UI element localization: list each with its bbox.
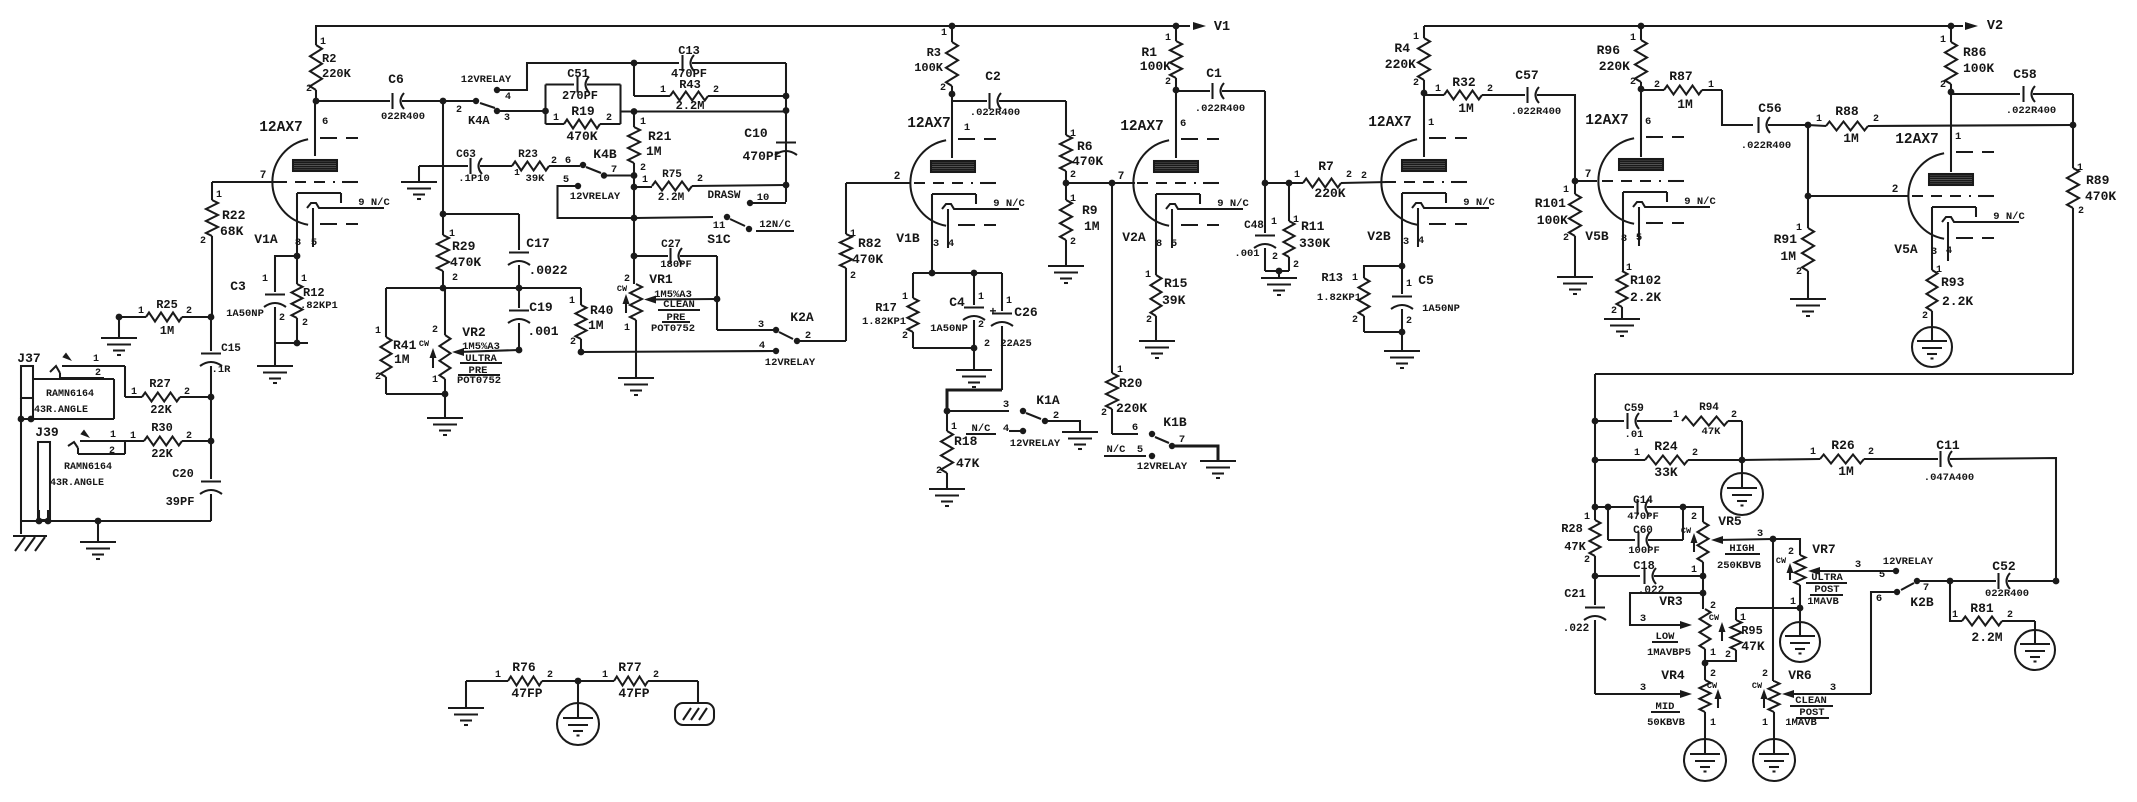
- wire cathode loop: [913, 272, 1002, 274]
- svg-text:3: 3: [1830, 682, 1836, 694]
- node K4B pin7 junction: [631, 172, 638, 179]
- svg-text:1: 1: [130, 431, 136, 442]
- svg-text:C11: C11: [1936, 438, 1960, 453]
- svg-text:1MAVB: 1MAVB: [1785, 717, 1817, 729]
- relay K1B: [1112, 433, 1138, 435]
- node R19 input: [542, 108, 549, 115]
- svg-text:1M: 1M: [394, 352, 410, 367]
- svg-text:5: 5: [1636, 232, 1642, 244]
- svg-text:9 N/C: 9 N/C: [1684, 196, 1716, 208]
- svg-text:.022R400: .022R400: [1195, 103, 1245, 115]
- wire feedback box top: [1595, 373, 2073, 375]
- svg-text:2: 2: [1293, 260, 1299, 271]
- switch S1C pin10: [747, 200, 753, 206]
- svg-text:33K: 33K: [1654, 465, 1678, 480]
- switch S1C arm to pin12: [730, 219, 745, 226]
- svg-text:22A25: 22A25: [1000, 338, 1032, 350]
- svg-text:39K: 39K: [526, 173, 546, 185]
- svg-text:6: 6: [565, 155, 571, 167]
- resistor R7: [1303, 179, 1341, 188]
- wire C26 to K1A node: [947, 390, 1002, 411]
- wire V1B plate lead: [951, 94, 953, 158]
- svg-text:4: 4: [759, 340, 765, 352]
- wire R94 down: [1741, 421, 1743, 460]
- svg-text:2: 2: [2007, 610, 2013, 621]
- svg-text:2: 2: [1868, 447, 1874, 458]
- svg-text:6: 6: [1132, 422, 1138, 434]
- svg-text:7: 7: [1923, 582, 1929, 594]
- svg-text:2: 2: [1762, 669, 1768, 680]
- resistor R82 grid series: [845, 183, 847, 234]
- svg-text:1: 1: [110, 430, 116, 441]
- node R24 R94 join: [1739, 457, 1746, 464]
- svg-text:R30: R30: [151, 421, 173, 435]
- svg-text:2: 2: [1691, 512, 1697, 523]
- svg-text:3: 3: [1640, 613, 1646, 625]
- svg-text:2: 2: [1563, 233, 1569, 244]
- svg-text:2: 2: [109, 446, 115, 457]
- node R76 R77: [575, 678, 582, 685]
- svg-text:1: 1: [1708, 80, 1714, 91]
- node R40 bottom: [578, 349, 585, 356]
- svg-text:12AX7: 12AX7: [1585, 113, 1629, 129]
- potentiometer VR5 HIGH: [1683, 507, 1703, 522]
- svg-text:2: 2: [279, 313, 285, 324]
- svg-text:2: 2: [1796, 267, 1802, 278]
- svg-text:K1A: K1A: [1036, 393, 1060, 408]
- svg-text:VR3: VR3: [1659, 594, 1683, 609]
- node R11 top: [1286, 180, 1293, 187]
- node S1C wire junction: [631, 215, 638, 222]
- svg-text:R88: R88: [1835, 104, 1859, 119]
- svg-text:2: 2: [186, 306, 192, 317]
- svg-text:1A50NP: 1A50NP: [1422, 303, 1460, 315]
- resistor R26: [1742, 459, 1820, 460]
- wire VR5 wiper trunk: [1772, 539, 1774, 681]
- resistor R4: [1423, 26, 1425, 38]
- svg-text:2: 2: [1788, 547, 1794, 558]
- wire V1A plate lead: [314, 101, 316, 156]
- svg-text:K4A: K4A: [468, 114, 490, 128]
- svg-text:C56: C56: [1758, 101, 1782, 116]
- wire VR2 bottom: [386, 393, 445, 395]
- capacitor C51: [546, 83, 575, 85]
- svg-text:1: 1: [1165, 33, 1171, 44]
- svg-text:2.2M: 2.2M: [658, 192, 685, 204]
- svg-text:2: 2: [1070, 170, 1076, 181]
- svg-text:.1P10: .1P10: [458, 173, 490, 185]
- svg-text:2: 2: [850, 271, 856, 282]
- wire K4A pin3 to R19: [497, 110, 546, 112]
- svg-text:1: 1: [1955, 131, 1961, 143]
- svg-text:1: 1: [1145, 270, 1151, 281]
- svg-text:R20: R20: [1119, 376, 1143, 391]
- svg-text:CW: CW: [419, 339, 430, 349]
- wire R17 C4 bottom: [913, 347, 974, 349]
- node R25 junction: [208, 314, 215, 321]
- relay K1A: [947, 410, 1009, 412]
- svg-text:J39: J39: [35, 425, 59, 440]
- svg-text:C60: C60: [1633, 525, 1653, 537]
- svg-text:CW: CW: [1752, 681, 1763, 691]
- ground R9: [1048, 265, 1084, 267]
- svg-text:2: 2: [1873, 114, 1879, 125]
- node C4 gnd: [971, 345, 978, 352]
- svg-text:12VRELAY: 12VRELAY: [570, 191, 621, 203]
- svg-text:C10: C10: [744, 126, 768, 141]
- svg-text:K2A: K2A: [790, 310, 814, 325]
- svg-text:C57: C57: [1515, 68, 1538, 83]
- svg-text:1A50NP: 1A50NP: [226, 308, 264, 320]
- resistor R77: [578, 680, 614, 682]
- resistor R86: [1950, 26, 1952, 42]
- svg-text:11: 11: [713, 220, 726, 232]
- relay K2B pin5: [1893, 568, 1899, 574]
- svg-text:2.2K: 2.2K: [1942, 294, 1973, 309]
- svg-text:3: 3: [1855, 559, 1861, 571]
- wire ground bus J37: [21, 520, 211, 522]
- svg-text:R22: R22: [222, 208, 246, 223]
- node V5A grid: [1805, 193, 1812, 200]
- svg-text:1: 1: [93, 354, 99, 365]
- svg-text:2: 2: [1406, 316, 1412, 327]
- svg-text:1.82KP1: 1.82KP1: [1317, 292, 1361, 304]
- resistor R18: [946, 411, 948, 431]
- svg-text:4: 4: [1946, 245, 1952, 257]
- svg-text:3: 3: [933, 238, 939, 250]
- svg-text:12VRELAY: 12VRELAY: [1137, 461, 1188, 473]
- node V5B... V2B plate: [1421, 90, 1428, 97]
- capacitor C18: [1595, 575, 1640, 577]
- svg-text:R102: R102: [1630, 273, 1661, 288]
- svg-text:2: 2: [306, 84, 312, 95]
- svg-text:R29: R29: [452, 239, 476, 254]
- svg-text:1: 1: [1634, 448, 1640, 459]
- svg-text:1: 1: [1070, 129, 1076, 140]
- svg-text:VR7: VR7: [1812, 542, 1835, 557]
- svg-text:R95: R95: [1741, 624, 1763, 638]
- relay K2A pin4: [773, 348, 779, 354]
- node bus dots: [36, 518, 43, 525]
- svg-text:3: 3: [1640, 682, 1646, 694]
- node rail R1: [1173, 23, 1180, 30]
- svg-text:1: 1: [262, 274, 268, 285]
- svg-text:VR5: VR5: [1718, 514, 1742, 529]
- svg-text:1M: 1M: [646, 144, 662, 159]
- svg-text:9 N/C: 9 N/C: [1993, 211, 2025, 223]
- node V2A plate: [1173, 87, 1180, 94]
- svg-text:J37: J37: [17, 351, 40, 366]
- svg-text:DRASW: DRASW: [707, 190, 740, 202]
- wire C58 down: [2072, 94, 2074, 125]
- svg-text:022R400: 022R400: [381, 111, 425, 123]
- svg-text:.001: .001: [1234, 248, 1259, 260]
- svg-text:39PF: 39PF: [166, 495, 195, 509]
- svg-text:8: 8: [1156, 238, 1162, 250]
- svg-text:1: 1: [1940, 35, 1946, 46]
- circled ground R76 R77: [577, 681, 579, 703]
- node C59 line: [1592, 418, 1599, 425]
- wire C63 left + ground: [419, 165, 468, 167]
- svg-text:1: 1: [1691, 565, 1697, 576]
- svg-text:2: 2: [1630, 77, 1636, 88]
- svg-text:2: 2: [184, 387, 190, 398]
- relay K2A: [773, 327, 779, 333]
- svg-text:R43: R43: [679, 78, 701, 92]
- wire K2B pin6 down: [1871, 592, 1897, 694]
- node R27 junction: [208, 394, 215, 401]
- svg-text:V2A: V2A: [1122, 230, 1146, 245]
- svg-text:2: 2: [1070, 237, 1076, 248]
- svg-text:1: 1: [514, 167, 520, 178]
- svg-text:1M: 1M: [1780, 249, 1796, 264]
- capacitor C10: [776, 141, 796, 143]
- svg-text:R87: R87: [1669, 69, 1692, 84]
- svg-text:C52: C52: [1992, 559, 2016, 574]
- node V1A cathode: [294, 253, 301, 260]
- resistor R23: [480, 165, 512, 167]
- svg-text:R24: R24: [1654, 439, 1678, 454]
- svg-text:470K: 470K: [1072, 154, 1103, 169]
- svg-text:2: 2: [606, 113, 612, 124]
- resistor R101: [1574, 181, 1576, 194]
- svg-text:12AX7: 12AX7: [1120, 119, 1164, 135]
- svg-text:100K: 100K: [1537, 213, 1568, 228]
- capacitor C19: [518, 288, 520, 308]
- relay K4A: [473, 98, 479, 104]
- svg-text:9 N/C: 9 N/C: [993, 198, 1025, 210]
- relay K2B: [1914, 578, 1920, 584]
- resistor R25: [119, 316, 146, 318]
- svg-text:3: 3: [1403, 236, 1409, 248]
- resistor R28: [1590, 520, 1601, 556]
- svg-text:V2: V2: [1987, 19, 2003, 34]
- svg-text:.001: .001: [527, 324, 558, 339]
- wire V5B plate lead: [1640, 89, 1642, 157]
- resistor R96: [1640, 26, 1642, 40]
- svg-text:6: 6: [1876, 593, 1882, 605]
- svg-text:R17: R17: [875, 301, 897, 315]
- wire R13 C5 bottom: [1364, 331, 1402, 333]
- resistor R41: [385, 288, 387, 337]
- wire V5A plate lead: [1950, 92, 1952, 172]
- svg-text:47K: 47K: [956, 456, 980, 471]
- svg-text:2: 2: [456, 105, 462, 116]
- wire to C17: [443, 213, 519, 215]
- svg-text:2: 2: [452, 273, 458, 284]
- svg-text:VR6: VR6: [1788, 668, 1812, 683]
- svg-text:1M: 1M: [1084, 219, 1100, 234]
- node R19 out right: [783, 107, 790, 114]
- svg-text:7: 7: [1585, 169, 1592, 181]
- svg-text:12N/C: 12N/C: [759, 219, 791, 231]
- svg-text:R1: R1: [1141, 45, 1157, 60]
- wire R24 line: [1594, 421, 1596, 460]
- svg-text:1MAVB: 1MAVB: [1807, 596, 1839, 608]
- capacitor C63: [469, 158, 471, 174]
- svg-text:R96: R96: [1597, 43, 1621, 58]
- svg-text:2: 2: [984, 339, 990, 350]
- wire VR3 wiper feed: [1630, 593, 1703, 625]
- node C17 bottom: [516, 285, 523, 292]
- svg-text:K4B: K4B: [593, 147, 617, 162]
- svg-text:POT0752: POT0752: [457, 375, 501, 387]
- svg-text:V5A: V5A: [1894, 242, 1918, 257]
- svg-text:1: 1: [1810, 447, 1816, 458]
- svg-text:R4: R4: [1394, 41, 1410, 56]
- svg-text:1: 1: [850, 229, 856, 240]
- svg-text:1: 1: [553, 113, 559, 124]
- wire V2A grid: [1066, 182, 1093, 184]
- svg-text:1: 1: [1117, 365, 1123, 376]
- resistor R43: [633, 63, 635, 96]
- svg-text:47FP: 47FP: [511, 686, 542, 701]
- svg-text:1: 1: [375, 326, 381, 337]
- svg-text:1: 1: [624, 323, 630, 334]
- resistor R91: [1807, 196, 1809, 228]
- capacitor C21: [1594, 576, 1596, 605]
- svg-text:1: 1: [495, 670, 501, 681]
- svg-text:47K: 47K: [1564, 540, 1586, 554]
- svg-text:C2: C2: [985, 69, 1001, 84]
- svg-text:C21: C21: [1564, 587, 1586, 601]
- node R30 junction: [208, 438, 215, 445]
- svg-text:.022R400: .022R400: [1511, 106, 1561, 118]
- svg-text:C15: C15: [221, 343, 241, 355]
- node R24 left: [1592, 457, 1599, 464]
- svg-text:2: 2: [1361, 171, 1367, 182]
- svg-text:C14: C14: [1633, 495, 1653, 507]
- svg-text:1: 1: [660, 85, 666, 96]
- ground at C63: [418, 166, 420, 181]
- svg-text:3: 3: [504, 113, 510, 124]
- ground R101: [1557, 276, 1593, 278]
- svg-text:C26: C26: [1014, 305, 1038, 320]
- potentiometer VR2: [444, 288, 446, 335]
- tube V1B 12AX7: [910, 140, 946, 226]
- svg-text:R7: R7: [1318, 159, 1334, 174]
- svg-text:9 N/C: 9 N/C: [1217, 198, 1249, 210]
- svg-text:5: 5: [1879, 569, 1885, 581]
- svg-text:R89: R89: [2086, 173, 2110, 188]
- svg-text:5: 5: [1137, 444, 1143, 456]
- svg-text:1M: 1M: [588, 318, 604, 333]
- svg-text:1: 1: [1710, 718, 1716, 729]
- wire R28 column: [1594, 460, 1596, 520]
- wire VR1 wiper to K2A: [717, 329, 776, 331]
- svg-text:470K: 470K: [450, 255, 481, 270]
- svg-text:2: 2: [653, 670, 659, 681]
- svg-text:270PF: 270PF: [562, 89, 598, 103]
- svg-text:1: 1: [902, 292, 908, 303]
- wire R20 long vertical: [1111, 183, 1113, 373]
- svg-text:22K: 22K: [151, 447, 173, 461]
- svg-text:100PF: 100PF: [1628, 545, 1660, 557]
- svg-text:R2: R2: [322, 52, 336, 66]
- svg-text:C1: C1: [1206, 66, 1222, 81]
- svg-text:220K: 220K: [1599, 59, 1630, 74]
- svg-text:.1R: .1R: [212, 364, 232, 376]
- node cathode gnd: [294, 340, 301, 347]
- circled ground R81: [2034, 621, 2036, 630]
- capacitor C57: [1526, 87, 1528, 103]
- resistor R2: [315, 26, 317, 45]
- svg-text:7: 7: [260, 170, 267, 182]
- node rail R96: [1638, 23, 1645, 30]
- svg-text:.82KP1: .82KP1: [300, 300, 338, 312]
- svg-text:2: 2: [697, 174, 703, 185]
- svg-text:100K: 100K: [1963, 61, 1994, 76]
- svg-text:1: 1: [131, 387, 137, 398]
- node VR2 bottom: [442, 391, 449, 398]
- svg-text:+: +: [989, 305, 996, 319]
- resistor R17: [912, 273, 914, 298]
- svg-text:C3: C3: [230, 279, 246, 294]
- svg-text:V1: V1: [1214, 20, 1230, 35]
- svg-text:4: 4: [505, 92, 511, 103]
- chassis ground J37: [20, 521, 22, 534]
- node R20 branch: [1109, 180, 1116, 187]
- svg-text:.047A400: .047A400: [1924, 472, 1974, 484]
- potentiometer VR1: [633, 256, 635, 284]
- resistor R15: [1151, 275, 1162, 316]
- ground R18: [929, 488, 965, 490]
- svg-text:2: 2: [1346, 170, 1352, 181]
- svg-text:12AX7: 12AX7: [259, 120, 303, 136]
- svg-text:6: 6: [1645, 116, 1651, 128]
- resistor R19: [544, 85, 546, 125]
- ground R15: [1139, 340, 1175, 342]
- svg-text:2: 2: [1413, 78, 1419, 89]
- ground VR1: [618, 377, 654, 379]
- node C19 bottom: [516, 347, 523, 354]
- node R75 junction: [631, 184, 638, 191]
- circled ground R93: [1912, 327, 1952, 367]
- svg-text:2: 2: [1731, 410, 1737, 421]
- wire V1B grid from K2A: [846, 182, 910, 184]
- svg-text:R75: R75: [662, 169, 682, 181]
- wire V2A plate lead: [1175, 90, 1177, 158]
- svg-text:RAMN6164: RAMN6164: [64, 462, 112, 473]
- node ULTRA PRE line left: [440, 285, 447, 292]
- svg-text:R18: R18: [954, 434, 978, 449]
- wire C11 to C52: [1950, 458, 2056, 581]
- svg-text:2: 2: [1165, 77, 1171, 88]
- svg-text:VR2: VR2: [462, 325, 486, 340]
- svg-text:C5: C5: [1418, 273, 1434, 288]
- svg-text:1: 1: [432, 375, 438, 386]
- svg-text:1M: 1M: [160, 324, 174, 338]
- svg-text:R3: R3: [927, 46, 941, 60]
- resistor R40: [580, 288, 582, 305]
- svg-text:2: 2: [1101, 408, 1107, 419]
- svg-text:2: 2: [713, 85, 719, 96]
- wire C21 to VR4 wiper: [1595, 693, 1686, 695]
- svg-text:12VRELAY: 12VRELAY: [1010, 438, 1061, 450]
- svg-text:N/C: N/C: [1107, 444, 1127, 456]
- svg-text:V1B: V1B: [896, 231, 920, 246]
- svg-text:VR4: VR4: [1661, 668, 1685, 683]
- svg-text:2: 2: [1146, 315, 1152, 326]
- wire V5A grid branch: [1807, 125, 1809, 196]
- node C52 right: [2053, 578, 2060, 585]
- svg-text:220K: 220K: [1116, 401, 1147, 416]
- capacitor C56: [1757, 117, 1759, 133]
- resistor R20: [1106, 373, 1118, 409]
- svg-text:250KBVB: 250KBVB: [1717, 560, 1762, 572]
- wire V2B plate lead: [1423, 93, 1425, 157]
- svg-text:1: 1: [602, 670, 608, 681]
